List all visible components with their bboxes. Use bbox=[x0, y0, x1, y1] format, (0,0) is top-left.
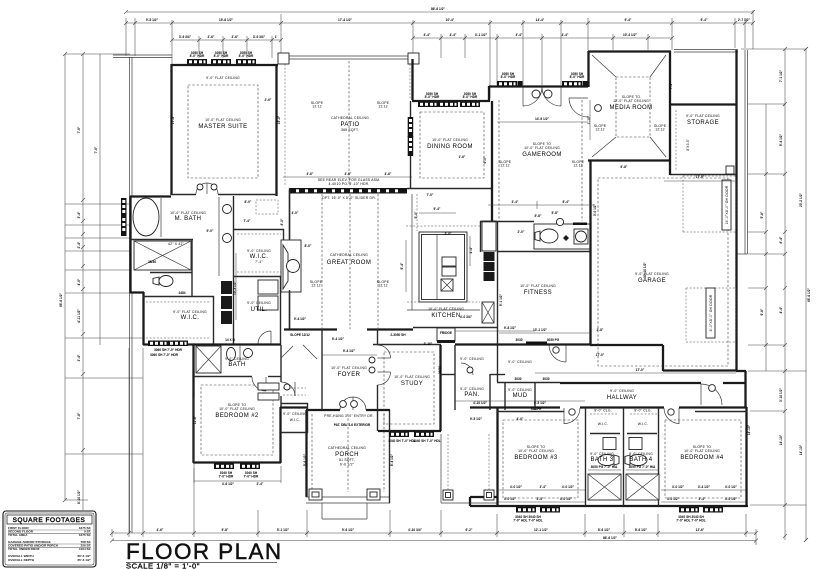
svg-text:9'-0" CEILING: 9'-0" CEILING bbox=[460, 387, 484, 391]
svg-text:4'-4": 4'-4" bbox=[450, 33, 457, 37]
svg-text:3060 SH 7'-0" HDR: 3060 SH 7'-0" HDR bbox=[150, 353, 179, 357]
svg-text:8'-4 1/2": 8'-4 1/2" bbox=[390, 453, 394, 466]
gameroom dim line bbox=[497, 121, 588, 123]
oven cabinet tower bbox=[482, 302, 494, 323]
kitchen cabinets tall bbox=[482, 221, 496, 251]
svg-text:8'-10 1/2": 8'-10 1/2" bbox=[77, 490, 81, 504]
wall kitchen east bbox=[481, 221, 497, 223]
dims above bed3/4 windows bbox=[497, 489, 585, 491]
svg-text:3'-0 1/2": 3'-0 1/2" bbox=[593, 203, 597, 216]
svg-text:SCALE 1/8" = 1'-0": SCALE 1/8" = 1'-0" bbox=[126, 562, 200, 569]
west wall of bed3 wing stub bbox=[469, 497, 471, 506]
svg-text:10'-0" FLAT CEILING: 10'-0" FLAT CEILING bbox=[170, 211, 206, 215]
svg-text:10'-4": 10'-4" bbox=[446, 18, 455, 22]
patio dashed ridge bbox=[348, 61, 350, 186]
svg-text:3'-4": 3'-4" bbox=[512, 200, 519, 204]
kitchen island bbox=[419, 232, 467, 302]
svg-text:9'-6 1/2": 9'-6 1/2" bbox=[340, 463, 355, 467]
island cooktop bbox=[442, 257, 456, 266]
svg-text:W.I.C.: W.I.C. bbox=[598, 422, 608, 426]
bed4 north wall bbox=[695, 411, 747, 413]
svg-text:9'-0" CEILING: 9'-0" CEILING bbox=[508, 388, 532, 392]
bed3 wing west wall bbox=[496, 408, 498, 506]
porch front (foyer) left wall bbox=[305, 410, 307, 497]
wic shelves bbox=[237, 233, 281, 235]
svg-text:8'-6 1/2": 8'-6 1/2" bbox=[598, 528, 611, 532]
svg-text:10'-0" FLAT CEILING: 10'-0" FLAT CEILING bbox=[518, 449, 554, 453]
bedroom2 east wall to porch bbox=[279, 407, 281, 463]
porch steps bbox=[321, 503, 323, 519]
svg-text:9'-0" CLG.: 9'-0" CLG. bbox=[634, 409, 652, 413]
svg-text:9'-4 1/2": 9'-4 1/2" bbox=[343, 349, 356, 353]
fitness south wall bbox=[455, 343, 590, 345]
svg-text:6'-8": 6'-8" bbox=[621, 165, 628, 169]
svg-text:2-3050 SH: 2-3050 SH bbox=[390, 333, 406, 337]
svg-text:3030: 3030 bbox=[542, 377, 549, 381]
gameroom french doors bbox=[522, 87, 524, 106]
dining dashed ceiling bbox=[420, 112, 484, 178]
dining top wall bbox=[412, 100, 490, 102]
svg-text:14'-10": 14'-10" bbox=[779, 434, 783, 445]
top overall dimension line 86'-6 1/2" bbox=[126, 11, 753, 13]
svg-text:7'-0" HDL 7'-0" HDL: 7'-0" HDL 7'-0" HDL bbox=[676, 519, 706, 523]
svg-text:3030: 3030 bbox=[514, 377, 521, 381]
bedroom2 south wall bbox=[193, 461, 281, 463]
util door arc bbox=[258, 331, 271, 344]
svg-text:65'-6 1/2": 65'-6 1/2" bbox=[77, 558, 91, 562]
garage south wall bbox=[590, 344, 663, 346]
svg-text:12'-6": 12'-6" bbox=[696, 528, 705, 532]
media room top wall bbox=[588, 50, 671, 52]
fitness dim bbox=[499, 332, 590, 334]
svg-text:9'-6 1/2": 9'-6 1/2" bbox=[342, 528, 355, 532]
master suite south wall bbox=[171, 194, 196, 196]
mbath west bump wall top bbox=[130, 195, 171, 197]
island sink bbox=[441, 279, 453, 291]
svg-text:9'-4 1/2": 9'-4 1/2" bbox=[294, 317, 307, 321]
vanity sink 2 bbox=[223, 234, 232, 243]
svg-text:1': 1' bbox=[275, 35, 278, 39]
rear porch outline bbox=[440, 434, 442, 503]
svg-text:FLOOR PLAN: FLOOR PLAN bbox=[126, 539, 283, 564]
master windows bbox=[187, 59, 207, 65]
gameroom lower dim bbox=[488, 204, 594, 206]
powder sink bbox=[574, 229, 588, 244]
study south windows bbox=[389, 432, 409, 438]
media room inner dashed ceiling bbox=[616, 77, 650, 137]
svg-text:10'-0" FLAT CEILING: 10'-0" FLAT CEILING bbox=[520, 284, 556, 288]
bath3 west wall bbox=[585, 408, 587, 506]
svg-text:3'-4": 3'-4" bbox=[540, 485, 547, 489]
svg-text:9'-8": 9'-8" bbox=[760, 308, 764, 315]
lintel bar bbox=[573, 223, 587, 226]
bottom overall dimension 86'-6 1/2" bbox=[112, 540, 756, 542]
svg-text:W.I.C.: W.I.C. bbox=[290, 418, 300, 422]
fireplace bbox=[281, 240, 301, 292]
svg-text:7'-6": 7'-6" bbox=[77, 126, 81, 133]
svg-text:10'-0" FLAT CEILING: 10'-0" FLAT CEILING bbox=[524, 146, 560, 150]
svg-text:7'-4": 7'-4" bbox=[255, 260, 263, 264]
svg-text:9'-0" FLAT CEILING: 9'-0" FLAT CEILING bbox=[206, 76, 240, 80]
svg-text:9'-0" FLAT CEILING: 9'-0" FLAT CEILING bbox=[173, 310, 207, 314]
svg-text:PAN.: PAN. bbox=[464, 392, 479, 398]
svg-text:1'-6": 1'-6" bbox=[459, 155, 466, 159]
svg-text:9'-5 1/2": 9'-5 1/2" bbox=[534, 401, 547, 405]
svg-text:3'-4": 3'-4" bbox=[77, 211, 81, 218]
svg-text:3'-4": 3'-4" bbox=[699, 497, 706, 501]
porch posts bbox=[309, 489, 322, 500]
study double doors bbox=[378, 345, 391, 358]
top dimension line level 3 (master windows) bbox=[172, 39, 281, 41]
svg-text:10'-0" FLAT CEILING: 10'-0" FLAT CEILING bbox=[205, 118, 241, 122]
svg-text:7'-1 1/2": 7'-1 1/2" bbox=[779, 69, 783, 82]
top dimension line level 3 (gameroom/dining) bbox=[413, 37, 672, 39]
svg-text:4'-0 1/2": 4'-0 1/2" bbox=[672, 485, 685, 489]
bath3/4 dims bbox=[588, 469, 621, 471]
svg-text:4'-0": 4'-0" bbox=[517, 417, 524, 421]
study south wall bbox=[378, 430, 441, 432]
powder toilet bbox=[540, 229, 558, 243]
svg-text:4'-0 3/4": 4'-0 3/4" bbox=[460, 315, 473, 319]
svg-text:17'-0": 17'-0" bbox=[596, 353, 605, 357]
hall wall east of master bbox=[289, 190, 291, 239]
svg-text:14'-10": 14'-10" bbox=[799, 444, 803, 455]
bath4 fixtures bbox=[631, 438, 641, 448]
bedroom2 west wall bbox=[192, 344, 194, 463]
svg-text:4'-6": 4'-6" bbox=[157, 528, 164, 532]
mbath south wall / shower top bbox=[130, 239, 193, 241]
svg-text:9'-4 1/2": 9'-4 1/2" bbox=[779, 133, 783, 146]
right overall dimension bbox=[805, 49, 807, 540]
svg-text:3'-10": 3'-10" bbox=[424, 342, 433, 346]
svg-text:10'-0" FLAT CEILING: 10'-0" FLAT CEILING bbox=[219, 407, 255, 411]
svg-text:81 SQFT.: 81 SQFT. bbox=[339, 458, 355, 462]
rear porch dashed bbox=[447, 434, 449, 490]
bed3 windows bbox=[516, 507, 536, 513]
svg-text:17'-0": 17'-0" bbox=[636, 368, 645, 372]
svg-text:PRE-HUNG 3'-0" ENTRY DR.: PRE-HUNG 3'-0" ENTRY DR. bbox=[324, 414, 374, 418]
svg-text:HALLWAY: HALLWAY bbox=[607, 395, 637, 401]
shower enclosure bbox=[134, 241, 191, 270]
svg-text:9'-0": 9'-0" bbox=[207, 229, 214, 233]
pantry door arc bbox=[461, 363, 473, 375]
fitness west wall bbox=[497, 221, 499, 382]
svg-text:19'-6 1/2": 19'-6 1/2" bbox=[219, 18, 233, 22]
svg-text:12:12: 12:12 bbox=[655, 128, 665, 132]
svg-text:3'-4": 3'-4" bbox=[537, 497, 544, 501]
svg-text:4'-0": 4'-0" bbox=[292, 211, 299, 215]
svg-text:2'-7 1/2": 2'-7 1/2" bbox=[738, 18, 751, 22]
svg-text:BATH: BATH bbox=[228, 362, 245, 368]
master door arc right bbox=[207, 183, 218, 194]
svg-text:4'-4": 4'-4" bbox=[562, 33, 569, 37]
svg-text:8'-0"X8'-0" OH DOOR: 8'-0"X8'-0" OH DOOR bbox=[709, 294, 713, 331]
media room right wall bbox=[669, 51, 671, 160]
linen cabinet dark blocks bbox=[221, 281, 232, 294]
svg-text:7'-6": 7'-6" bbox=[94, 146, 98, 153]
svg-text:3'-9 3/4": 3'-9 3/4" bbox=[253, 35, 266, 39]
svg-text:3040 SH 7'-0" HDL: 3040 SH 7'-0" HDL bbox=[388, 439, 416, 443]
svg-text:13'-1 1/2": 13'-1 1/2" bbox=[533, 328, 547, 332]
svg-text:14'-9 1/2": 14'-9 1/2" bbox=[535, 117, 549, 121]
master suite right wall bbox=[275, 64, 277, 196]
svg-text:17'-4 1/2": 17'-4 1/2" bbox=[338, 18, 352, 22]
util east wall bbox=[280, 276, 282, 345]
kitchen south wall bbox=[413, 327, 497, 329]
square footages table bbox=[3, 511, 96, 567]
svg-text:10'-0" FLAT CEILING: 10'-0" FLAT CEILING bbox=[394, 375, 430, 379]
svg-text:9'-0" FLAT CEILING: 9'-0" FLAT CEILING bbox=[635, 272, 669, 276]
garage dashed ceiling bbox=[598, 178, 728, 366]
svg-text:3050 PG 7'-0" HIA: 3050 PG 7'-0" HIA bbox=[591, 465, 618, 469]
svg-text:8'-0": 8'-0" bbox=[305, 244, 312, 248]
svg-text:4'-4": 4'-4" bbox=[469, 246, 473, 253]
svg-text:5'-8": 5'-8" bbox=[552, 211, 559, 215]
svg-text:9'-0" CEILING: 9'-0" CEILING bbox=[283, 412, 307, 416]
foyer south wall / front door wall bbox=[306, 409, 340, 411]
svg-text:9'-0" CEILING: 9'-0" CEILING bbox=[590, 452, 614, 456]
svg-text:9'-0" FLAT CEILING: 9'-0" FLAT CEILING bbox=[686, 114, 720, 118]
bed3 dashed ceiling bbox=[503, 420, 578, 498]
svg-text:9'-4": 9'-4" bbox=[400, 262, 404, 269]
svg-text:65'-6 1/2": 65'-6 1/2" bbox=[807, 288, 811, 302]
kitchen counter dashed bbox=[406, 225, 480, 227]
svg-text:MUD: MUD bbox=[513, 393, 528, 399]
bath3 fixtures bbox=[605, 438, 615, 448]
bed2 hall door arc bbox=[281, 382, 295, 396]
gameroom dashed slope lines bbox=[498, 100, 500, 221]
great room south wall bbox=[284, 328, 337, 330]
svg-text:14'-4": 14'-4" bbox=[536, 18, 545, 22]
wic2 north wall bbox=[143, 296, 214, 298]
svg-text:4'-0 1/2": 4'-0 1/2" bbox=[560, 497, 573, 501]
study right wall bbox=[439, 345, 441, 431]
svg-text:9'-0" CEILING: 9'-0" CEILING bbox=[508, 360, 532, 364]
svg-text:9'-4 1/2": 9'-4 1/2" bbox=[332, 337, 345, 341]
svg-text:14 X B: 14 X B bbox=[225, 338, 235, 342]
svg-text:GARAGE: GARAGE bbox=[638, 278, 666, 284]
svg-text:2'-0": 2'-0" bbox=[518, 230, 525, 234]
svg-text:KITCHEN: KITCHEN bbox=[431, 313, 460, 319]
toilet m.bath bbox=[159, 276, 173, 287]
svg-text:4'-0 1/2": 4'-0 1/2" bbox=[510, 485, 523, 489]
svg-text:9'-0" CEILING: 9'-0" CEILING bbox=[610, 389, 634, 393]
svg-text:3'-10 1/2": 3'-10 1/2" bbox=[779, 388, 783, 402]
svg-text:9'-4": 9'-4" bbox=[625, 18, 632, 22]
svg-text:CATHEDRAL CEILING: CATHEDRAL CEILING bbox=[328, 446, 366, 450]
svg-text:MEDIA ROOM: MEDIA ROOM bbox=[609, 105, 652, 111]
svg-text:9'-8 1/2": 9'-8 1/2" bbox=[504, 326, 517, 330]
svg-text:1'-10": 1'-10" bbox=[587, 115, 591, 124]
garage door bay 1 dashes bbox=[735, 180, 737, 230]
svg-text:3060 SH 7'-0" HDR: 3060 SH 7'-0" HDR bbox=[154, 348, 183, 352]
svg-text:30'-10 1/2": 30'-10 1/2" bbox=[643, 262, 647, 278]
media room hip diagonals bbox=[592, 55, 616, 77]
svg-text:65'-6 1/2": 65'-6 1/2" bbox=[59, 293, 63, 307]
svg-text:9'-0" CEILING: 9'-0" CEILING bbox=[460, 357, 484, 361]
svg-text:FRIDGE: FRIDGE bbox=[440, 331, 452, 335]
dining west wall bbox=[410, 101, 412, 188]
svg-text:9'-6 1/2": 9'-6 1/2" bbox=[303, 453, 307, 466]
svg-text:16'-0"X8'-0" OH DOOR: 16'-0"X8'-0" OH DOOR bbox=[725, 185, 729, 224]
sw corner windows bbox=[148, 341, 168, 347]
svg-text:10'-0" FLAT CEILING: 10'-0" FLAT CEILING bbox=[684, 449, 720, 453]
svg-text:4'-4": 4'-4" bbox=[424, 33, 431, 37]
svg-text:4'-6": 4'-6" bbox=[345, 172, 352, 176]
step dining-gameroom bbox=[488, 86, 490, 101]
bedroom4 right wall bbox=[745, 407, 747, 507]
svg-text:16'-0": 16'-0" bbox=[277, 115, 281, 124]
corridor angled doors bbox=[303, 345, 317, 359]
patio top beam bbox=[282, 55, 413, 57]
svg-text:8'X3.5': 8'X3.5' bbox=[686, 139, 690, 151]
front door arcs bbox=[340, 397, 353, 410]
svg-text:12:12: 12:12 bbox=[500, 164, 510, 168]
tub window column bbox=[121, 198, 127, 218]
svg-text:SQUARE FOOTAGES: SQUARE FOOTAGES bbox=[13, 517, 86, 524]
svg-text:365 SQFT.: 365 SQFT. bbox=[341, 128, 359, 132]
great room west wall bbox=[289, 188, 291, 240]
small dims along mbath bbox=[133, 232, 135, 234]
dining east wall bbox=[491, 101, 493, 221]
tub platform bbox=[160, 198, 162, 237]
svg-text:10'-0" FLAT CEILING: 10'-0" FLAT CEILING bbox=[331, 366, 367, 370]
hallway dim bbox=[535, 372, 736, 374]
mud room walls bbox=[504, 383, 506, 410]
great room glass wall bbox=[290, 188, 407, 194]
powder bath box bbox=[534, 224, 590, 249]
svg-text:5'-1 1/2": 5'-1 1/2" bbox=[277, 528, 290, 532]
storage bottom wall bbox=[670, 174, 736, 176]
sw corner wall bbox=[143, 343, 194, 345]
bed2 south windows bbox=[214, 464, 234, 470]
bed4 door arc bbox=[678, 408, 680, 424]
baths center wall bbox=[623, 408, 625, 506]
svg-text:6'-0": 6'-0" bbox=[483, 156, 487, 163]
svg-text:3'-4": 3'-4" bbox=[77, 354, 81, 361]
svg-text:12:12: 12:12 bbox=[312, 105, 322, 109]
svg-text:10'-0" FLAT CEILING: 10'-0" FLAT CEILING bbox=[432, 138, 468, 142]
fridge nook bbox=[437, 328, 455, 341]
tick slashes on top dim lines bbox=[81, 21, 787, 538]
svg-text:CATHEDRAL CEILING: CATHEDRAL CEILING bbox=[331, 116, 369, 120]
garage door bay 1 label bbox=[722, 180, 731, 230]
svg-text:8'-6 1/2": 8'-6 1/2" bbox=[635, 528, 648, 532]
svg-text:12:12: 12:12 bbox=[378, 105, 388, 109]
bath2 shower bbox=[196, 346, 221, 373]
hallway north wall bbox=[560, 382, 701, 384]
garage west wall bbox=[589, 160, 591, 345]
eave vertical left bbox=[129, 57, 131, 533]
svg-text:7'-0" HDR: 7'-0" HDR bbox=[244, 475, 259, 479]
svg-text:7'-0" HDL 7'-0" HDL: 7'-0" HDL 7'-0" HDL bbox=[513, 519, 543, 523]
media door bbox=[569, 97, 588, 99]
storage dashed bbox=[675, 110, 677, 170]
svg-text:2'-4": 2'-4" bbox=[77, 241, 81, 248]
svg-text:4'-0 1/2": 4'-0 1/2" bbox=[504, 497, 517, 501]
svg-text:MASTER SUITE: MASTER SUITE bbox=[198, 124, 247, 130]
svg-text:7'-0": 7'-0" bbox=[427, 193, 434, 197]
eave line top-left bbox=[113, 54, 172, 56]
patio dim line bbox=[283, 176, 412, 178]
svg-text:14'-10": 14'-10" bbox=[747, 424, 751, 435]
svg-text:2484: 2484 bbox=[178, 291, 185, 295]
svg-text:3'-1 1/2": 3'-1 1/2" bbox=[475, 33, 488, 37]
svg-text:3'-9 3/4": 3'-9 3/4" bbox=[179, 35, 192, 39]
svg-text:12:12: 12:12 bbox=[311, 284, 321, 288]
svg-text:DINING ROOM: DINING ROOM bbox=[427, 144, 473, 150]
west wall shower block bbox=[129, 196, 131, 293]
svg-text:OPT. 16'-0" X 8'-0" SLIDER DR.: OPT. 16'-0" X 8'-0" SLIDER DR. bbox=[322, 196, 376, 200]
svg-text:17'-4": 17'-4" bbox=[171, 115, 175, 124]
svg-text:STORAGE: STORAGE bbox=[687, 120, 719, 126]
svg-text:86'-6 1/2": 86'-6 1/2" bbox=[431, 7, 445, 11]
svg-text:9'-0" CEILING: 9'-0" CEILING bbox=[247, 249, 271, 253]
dining south wall bbox=[407, 188, 492, 190]
powder door tag bbox=[556, 218, 563, 225]
bed3 door arc bbox=[563, 408, 565, 424]
svg-text:4'-4": 4'-4" bbox=[779, 306, 783, 313]
svg-text:8'-0": 8'-0" bbox=[245, 200, 252, 204]
svg-text:4'-6": 4'-6" bbox=[77, 278, 81, 285]
svg-text:3030 PG: 3030 PG bbox=[547, 338, 560, 342]
left dim line level 2 bbox=[82, 54, 84, 510]
svg-text:9'-0" CLG.: 9'-0" CLG. bbox=[594, 409, 612, 413]
patio side dashed lines bbox=[284, 64, 286, 186]
master wic box bbox=[234, 229, 284, 231]
svg-text:W.I.C.: W.I.C. bbox=[638, 422, 648, 426]
svg-text:BATH 4: BATH 4 bbox=[630, 457, 653, 463]
svg-text:3030: 3030 bbox=[515, 338, 522, 342]
hallway north lintel bbox=[526, 342, 547, 345]
kitchen south details bbox=[413, 302, 560, 381]
svg-text:3'-0": 3'-0" bbox=[445, 232, 452, 236]
svg-text:10'-4 1/2": 10'-4 1/2" bbox=[623, 33, 637, 37]
svg-text:BATH 3: BATH 3 bbox=[591, 457, 614, 463]
rear porch posts bbox=[443, 490, 453, 500]
svg-text:OVERALL DEPTH: OVERALL DEPTH bbox=[8, 558, 35, 562]
svg-text:3040 SH 7'-0" HDL: 3040 SH 7'-0" HDL bbox=[413, 439, 441, 443]
study north wall bbox=[373, 344, 441, 346]
vanity sink 1 bbox=[223, 205, 232, 214]
svg-text:BEDROOM #2: BEDROOM #2 bbox=[215, 413, 259, 419]
svg-text:9'-4": 9'-4" bbox=[701, 18, 708, 22]
storage right / garage right wall bbox=[735, 50, 737, 371]
svg-text:36/36: 36/36 bbox=[148, 260, 156, 264]
svg-text:9'-8": 9'-8" bbox=[222, 528, 229, 532]
svg-text:8'-4": 8'-4" bbox=[779, 236, 783, 243]
svg-text:7'-4": 7'-4" bbox=[669, 82, 673, 89]
wall patio to dining bbox=[411, 59, 413, 100]
toilet room walls bbox=[150, 272, 192, 274]
svg-text:10'-3 1/2": 10'-3 1/2" bbox=[233, 281, 237, 295]
svg-text:3'-6": 3'-6" bbox=[232, 35, 239, 39]
svg-text:4'-0 1/2": 4'-0 1/2" bbox=[725, 497, 738, 501]
vestibule door arc bbox=[549, 345, 566, 362]
svg-text:9'-4": 9'-4" bbox=[434, 207, 441, 211]
dining west windows bbox=[408, 117, 414, 137]
svg-text:9'-5 1/2": 9'-5 1/2" bbox=[470, 417, 483, 421]
svg-text:10'-0" FLAT CEILING: 10'-0" FLAT CEILING bbox=[428, 307, 464, 311]
porch south edge bbox=[306, 496, 390, 498]
svg-text:8'-0": 8'-0" bbox=[280, 218, 284, 225]
svg-text:12:12: 12:12 bbox=[573, 164, 583, 168]
garage outer wall line bbox=[744, 50, 746, 254]
master suite left wall bbox=[170, 64, 172, 195]
svg-text:12:12: 12:12 bbox=[595, 128, 605, 132]
svg-text:7'-8": 7'-8" bbox=[77, 412, 81, 419]
wic3/wic4 walls bbox=[590, 433, 620, 435]
